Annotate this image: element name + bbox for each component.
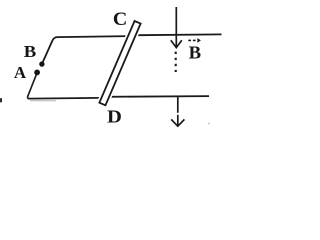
svg-text:D: D bbox=[107, 108, 122, 128]
svg-text:B: B bbox=[189, 43, 201, 63]
svg-text:C: C bbox=[113, 10, 127, 30]
svg-text:B: B bbox=[24, 42, 37, 61]
svg-text:A: A bbox=[14, 63, 26, 82]
